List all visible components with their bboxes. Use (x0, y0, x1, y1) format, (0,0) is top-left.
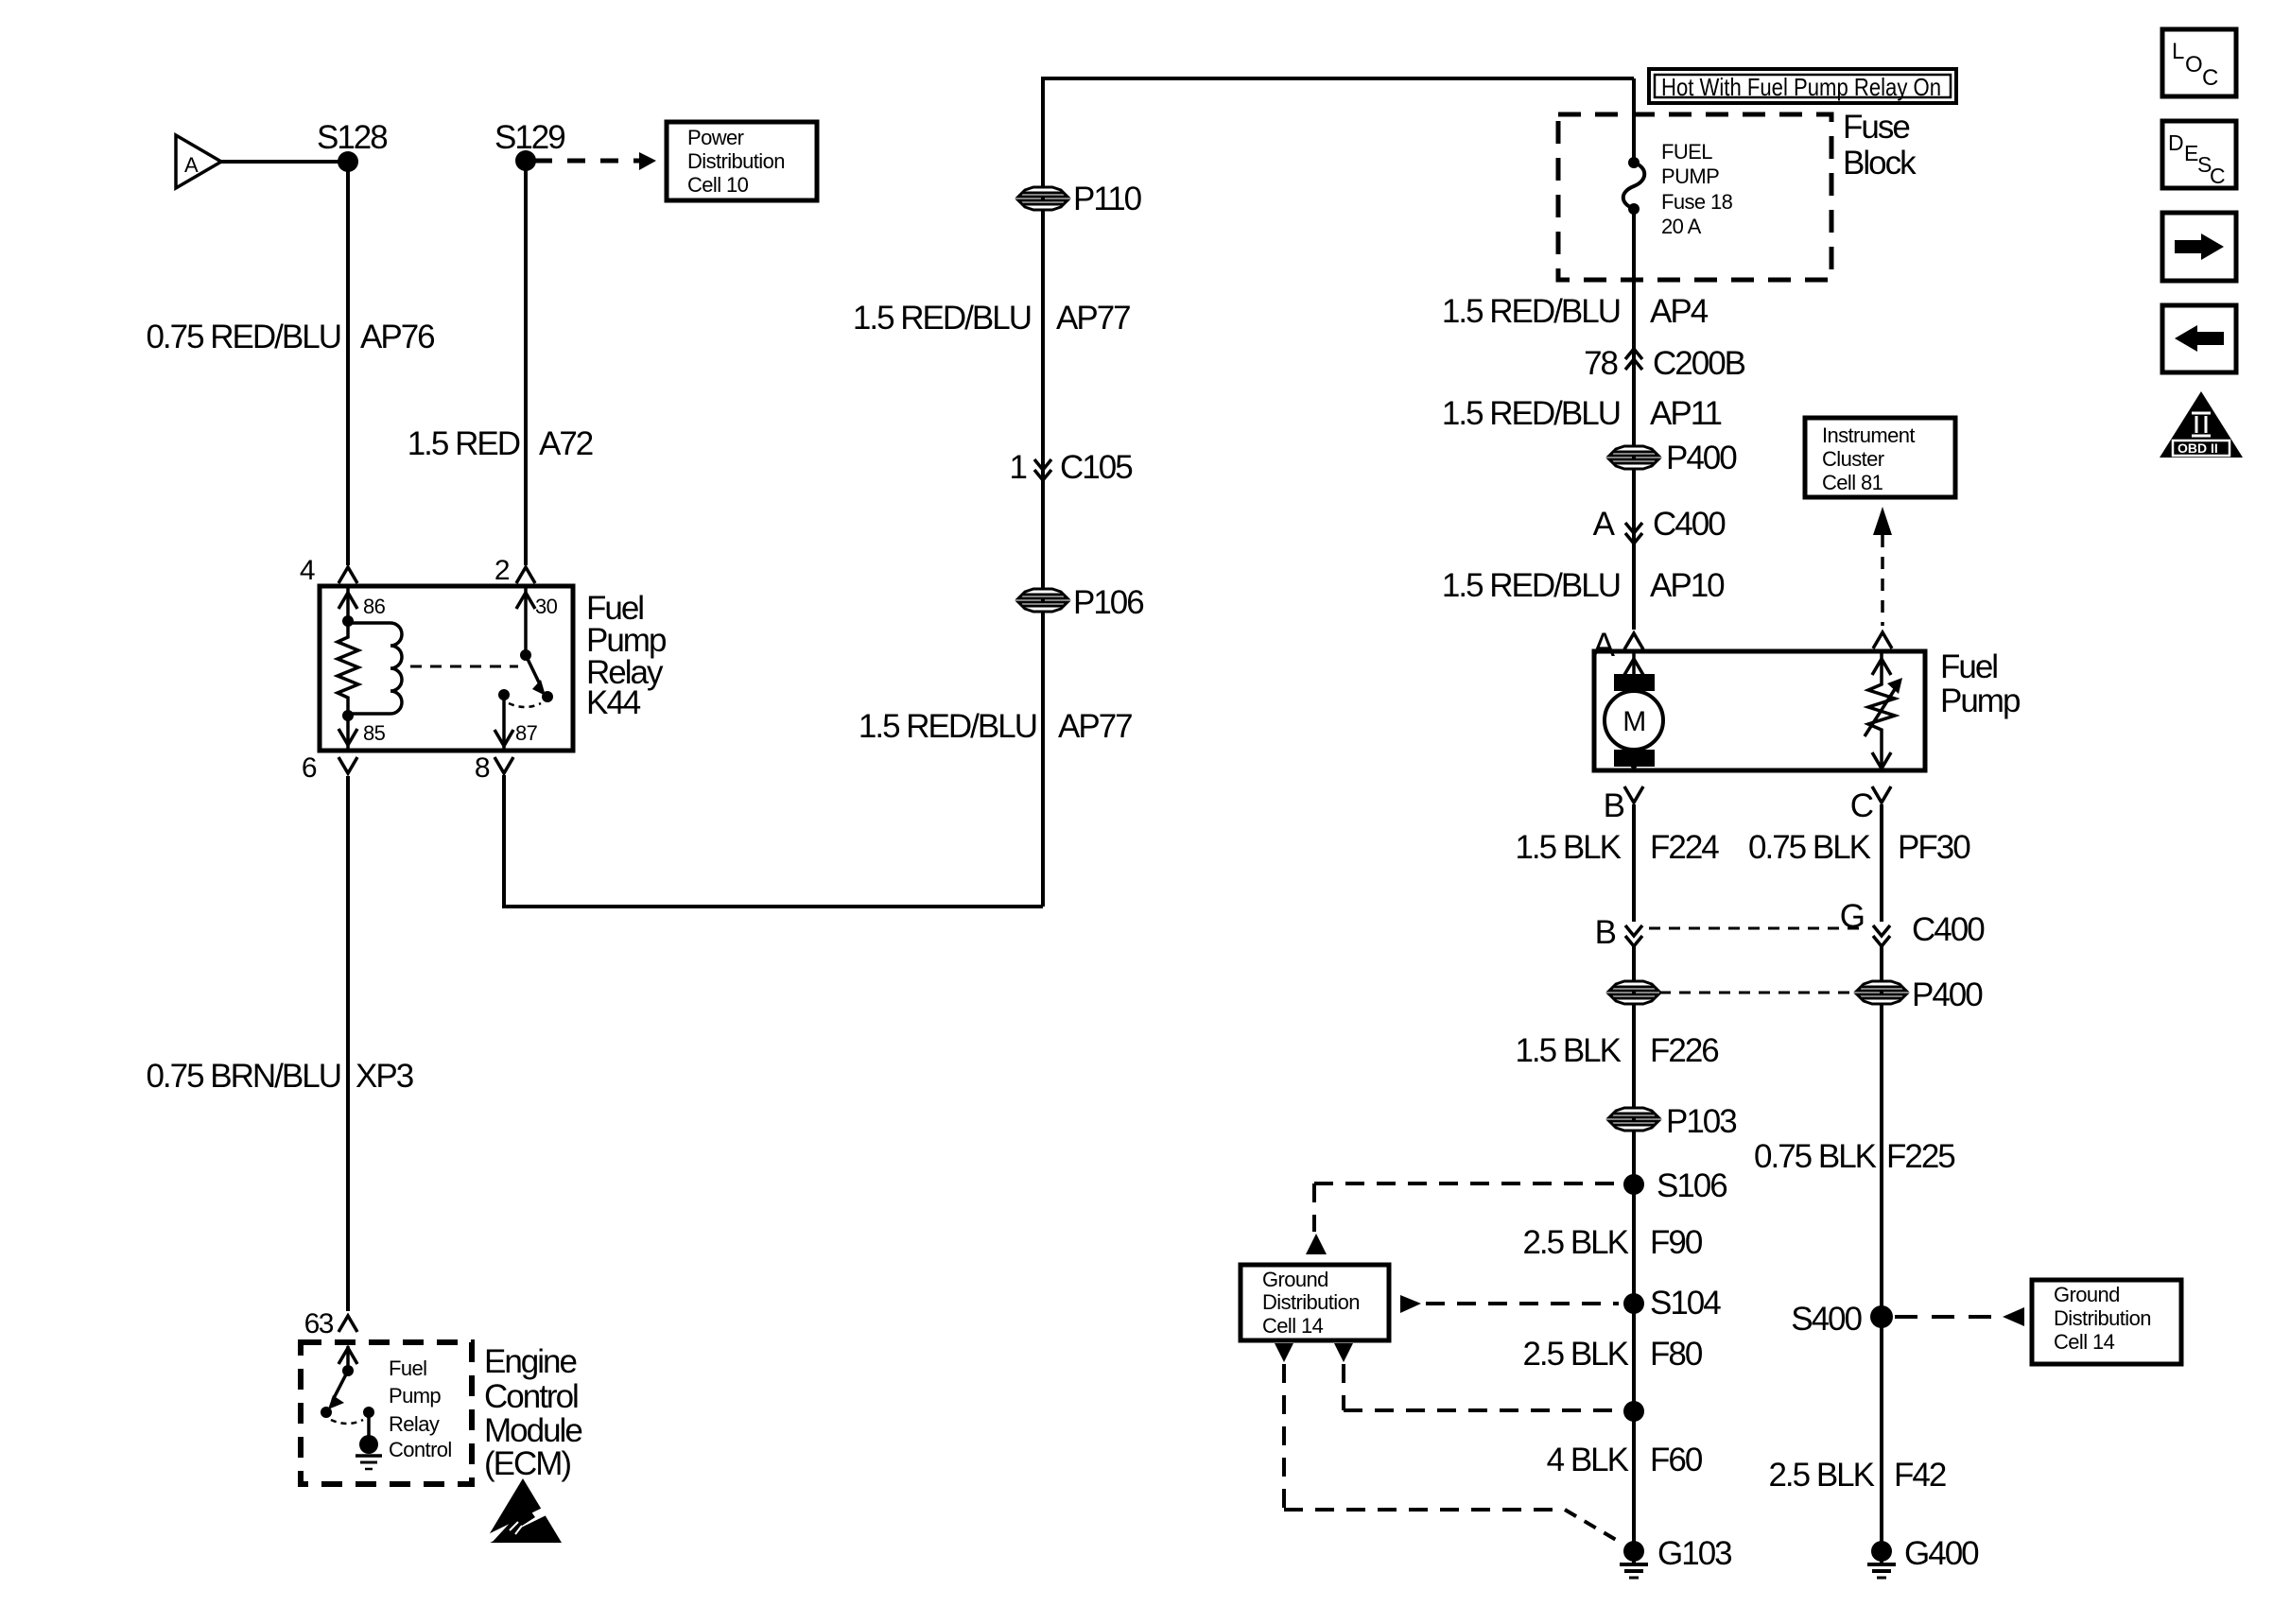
svg-text:85: 85 (363, 721, 386, 745)
svg-text:Relay: Relay (389, 1412, 440, 1436)
svg-text:Distribution: Distribution (687, 149, 785, 173)
svg-text:S106: S106 (1657, 1167, 1726, 1204)
svg-text:1.5 RED/BLU: 1.5 RED/BLU (853, 300, 1031, 337)
svg-text:P110: P110 (1073, 181, 1142, 217)
svg-text:6: 6 (302, 752, 317, 784)
svg-text:1.5 RED/BLU: 1.5 RED/BLU (859, 708, 1036, 745)
svg-text:Cluster: Cluster (1822, 447, 1884, 471)
svg-text:Distribution: Distribution (1262, 1290, 1360, 1314)
svg-text:AP77: AP77 (1058, 708, 1132, 745)
svg-text:B: B (1595, 914, 1616, 951)
svg-text:C: C (2202, 65, 2218, 91)
svg-text:4: 4 (300, 555, 315, 586)
svg-text:87: 87 (515, 721, 538, 745)
svg-text:B: B (1604, 787, 1624, 824)
svg-text:Module: Module (484, 1412, 581, 1449)
svg-text:Distribution: Distribution (2054, 1306, 2151, 1330)
svg-text:G103: G103 (1657, 1535, 1731, 1572)
svg-text:Power: Power (687, 126, 744, 149)
svg-text:M: M (1622, 706, 1645, 737)
svg-text:Instrument: Instrument (1822, 423, 1915, 447)
svg-text:A: A (1593, 506, 1616, 543)
svg-text:AP4: AP4 (1650, 293, 1709, 330)
svg-text:0.75 BLK: 0.75 BLK (1754, 1138, 1877, 1175)
svg-text:1.5 BLK: 1.5 BLK (1515, 829, 1621, 866)
svg-text:(ECM): (ECM) (484, 1445, 570, 1482)
svg-text:C400: C400 (1653, 506, 1726, 543)
svg-text:Ground: Ground (1262, 1268, 1328, 1291)
svg-text:Cell 10: Cell 10 (687, 173, 749, 197)
svg-text:A: A (184, 153, 199, 177)
svg-text:AP11: AP11 (1650, 395, 1722, 432)
svg-text:AP10: AP10 (1650, 567, 1725, 604)
svg-text:30: 30 (535, 595, 558, 618)
svg-text:AP77: AP77 (1056, 300, 1130, 337)
svg-text:F224: F224 (1650, 829, 1719, 866)
svg-text:1.5 BLK: 1.5 BLK (1515, 1032, 1621, 1069)
svg-text:1.5 RED/BLU: 1.5 RED/BLU (1442, 567, 1620, 604)
svg-text:Engine: Engine (484, 1343, 577, 1380)
svg-text:A72: A72 (539, 425, 593, 462)
svg-text:C105: C105 (1060, 449, 1132, 486)
svg-text:S104: S104 (1650, 1285, 1721, 1322)
svg-text:PUMP: PUMP (1661, 164, 1719, 188)
svg-text:0.75 RED/BLU: 0.75 RED/BLU (146, 319, 340, 355)
svg-text:F90: F90 (1650, 1224, 1703, 1261)
svg-text:S400: S400 (1791, 1301, 1862, 1338)
svg-text:2.5 BLK: 2.5 BLK (1522, 1224, 1628, 1261)
svg-text:P106: P106 (1073, 584, 1143, 621)
svg-text:P400: P400 (1912, 976, 1983, 1013)
svg-text:Control: Control (484, 1378, 578, 1415)
svg-text:G400: G400 (1904, 1535, 1979, 1572)
svg-text:FUEL: FUEL (1661, 140, 1712, 164)
svg-text:Fuse: Fuse (1843, 109, 1909, 146)
svg-text:2.5 BLK: 2.5 BLK (1522, 1336, 1628, 1373)
svg-text:S128: S128 (317, 119, 387, 156)
svg-text:20 A: 20 A (1661, 215, 1702, 238)
svg-text:L: L (2172, 39, 2184, 64)
svg-text:Ground: Ground (2054, 1283, 2120, 1306)
svg-text:1: 1 (1010, 449, 1027, 486)
svg-text:1.5 RED/BLU: 1.5 RED/BLU (1442, 395, 1620, 432)
svg-text:F80: F80 (1650, 1336, 1703, 1373)
svg-text:C: C (2210, 164, 2226, 188)
svg-text:Cell 14: Cell 14 (1262, 1314, 1324, 1338)
svg-text:F60: F60 (1650, 1442, 1703, 1478)
svg-text:C400: C400 (1912, 911, 1985, 948)
svg-text:2: 2 (495, 555, 510, 586)
svg-text:S129: S129 (495, 119, 564, 156)
svg-text:C: C (1850, 787, 1873, 824)
svg-text:F225: F225 (1886, 1138, 1954, 1175)
svg-text:Cell 14: Cell 14 (2054, 1330, 2115, 1354)
svg-text:Fuel: Fuel (1940, 648, 1997, 685)
svg-text:AP76: AP76 (360, 319, 434, 355)
svg-text:OBD II: OBD II (2178, 441, 2218, 456)
svg-text:PF30: PF30 (1898, 829, 1970, 866)
svg-text:Block: Block (1843, 145, 1917, 181)
svg-text:K44: K44 (586, 684, 641, 721)
svg-text:P400: P400 (1666, 440, 1737, 476)
svg-text:O: O (2185, 52, 2203, 78)
svg-text:86: 86 (363, 595, 386, 618)
svg-text:C200B: C200B (1653, 345, 1745, 382)
svg-text:F226: F226 (1650, 1032, 1718, 1069)
svg-text:Pump: Pump (1940, 682, 2020, 719)
svg-text:Fuse 18: Fuse 18 (1661, 190, 1733, 214)
svg-text:0.75 BLK: 0.75 BLK (1748, 829, 1871, 866)
svg-text:2.5 BLK: 2.5 BLK (1768, 1457, 1874, 1494)
svg-text:8: 8 (475, 752, 490, 784)
svg-text:Cell 81: Cell 81 (1822, 471, 1883, 494)
svg-text:0.75 BRN/BLU: 0.75 BRN/BLU (146, 1058, 340, 1095)
svg-text:Pump: Pump (389, 1384, 441, 1408)
svg-text:D: D (2168, 130, 2184, 155)
svg-text:XP3: XP3 (356, 1058, 413, 1095)
svg-text:1.5 RED: 1.5 RED (408, 425, 520, 462)
svg-text:Control: Control (389, 1438, 452, 1461)
svg-text:Hot With Fuel Pump Relay On: Hot With Fuel Pump Relay On (1661, 73, 1941, 101)
svg-text:F42: F42 (1894, 1457, 1946, 1494)
svg-text:1.5 RED/BLU: 1.5 RED/BLU (1442, 293, 1620, 330)
svg-text:4 BLK: 4 BLK (1547, 1442, 1629, 1478)
svg-text:63: 63 (304, 1308, 334, 1339)
svg-text:P103: P103 (1666, 1103, 1736, 1140)
svg-text:78: 78 (1584, 345, 1617, 382)
svg-text:Fuel: Fuel (389, 1356, 426, 1380)
